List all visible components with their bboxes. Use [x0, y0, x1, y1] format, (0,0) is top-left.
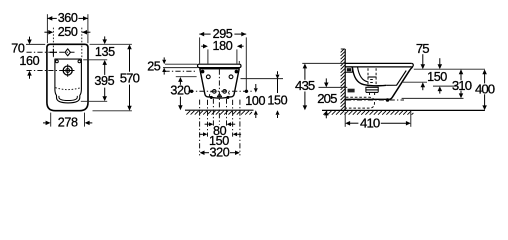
svg-text:400: 400 [475, 81, 495, 96]
svg-text:75: 75 [416, 41, 429, 56]
svg-text:395: 395 [94, 74, 114, 88]
svg-text:25: 25 [147, 59, 161, 73]
svg-text:435: 435 [295, 78, 315, 93]
svg-text:410: 410 [360, 116, 380, 131]
svg-text:320: 320 [209, 146, 229, 160]
svg-text:205: 205 [317, 91, 337, 106]
svg-text:570: 570 [120, 70, 140, 85]
svg-text:100: 100 [245, 94, 265, 108]
svg-text:360: 360 [58, 11, 78, 25]
svg-text:310: 310 [452, 78, 472, 93]
svg-text:150: 150 [267, 93, 287, 107]
svg-text:135: 135 [95, 45, 115, 59]
svg-text:180: 180 [212, 39, 232, 53]
svg-text:278: 278 [58, 116, 78, 130]
svg-text:160: 160 [19, 54, 39, 68]
svg-text:250: 250 [58, 25, 78, 39]
svg-text:150: 150 [427, 70, 447, 84]
svg-text:320: 320 [170, 84, 190, 98]
